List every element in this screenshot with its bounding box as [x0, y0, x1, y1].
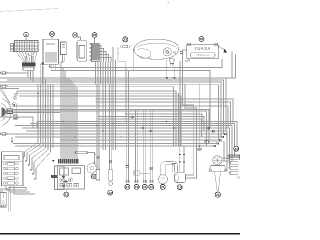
- label 16b: [134, 184, 139, 189]
- label 12: [108, 190, 113, 195]
- svg-text:50: 50: [50, 32, 54, 36]
- svg-text:YB16AL-A2: YB16AL-A2: [196, 53, 210, 57]
- key switch block 50: [41, 39, 58, 70]
- connector symbol under 25: [121, 45, 131, 47]
- label 14: [125, 184, 130, 189]
- mid horizontal bundle: [7, 122, 238, 172]
- turn lamp bottom left: [0, 188, 26, 212]
- svg-text:25: 25: [123, 38, 127, 42]
- connector block 9: [15, 41, 39, 52]
- battery negative lead: [180, 50, 189, 61]
- svg-text:9: 9: [25, 33, 27, 37]
- label 21: [160, 184, 165, 189]
- starter solenoid motor 21: [158, 162, 177, 184]
- svg-text:33: 33: [200, 37, 204, 41]
- svg-text:22: 22: [216, 193, 220, 197]
- label 20: [91, 174, 96, 179]
- label 33: [199, 37, 204, 42]
- junction dots: [37, 93, 175, 138]
- headlight 1: [1, 97, 17, 126]
- connector marks mid right: [130, 116, 152, 132]
- center vertical bundle to ignition strip: [61, 62, 77, 159]
- svg-text:10: 10: [73, 33, 77, 37]
- harness sleeve block: [22, 63, 36, 71]
- label 50: [50, 32, 55, 40]
- fuel tank outline: [134, 39, 179, 59]
- sensor pair 15: [139, 110, 150, 182]
- headlight wires: [0, 86, 209, 146]
- left connector plug A: [0, 72, 28, 74]
- svg-text:16: 16: [135, 185, 139, 189]
- wires left of key switch: [41, 64, 43, 84]
- right corner bundle: [13, 99, 233, 137]
- fusebox tail wires: [0, 186, 35, 194]
- horn 20: [87, 163, 97, 173]
- starter motor 17: [171, 164, 185, 183]
- sensor wires with terminals: [166, 60, 176, 79]
- right connector comb upper: [227, 155, 239, 160]
- ground symbol: [197, 84, 202, 151]
- coil wires verticals: [96, 47, 116, 150]
- left connector plug B: [0, 77, 173, 146]
- fusebox feed arrows: [23, 156, 36, 180]
- long harness horizontals upper: [0, 52, 236, 141]
- svg-text:17: 17: [178, 185, 182, 189]
- comb connector 28: [90, 43, 100, 62]
- pair end terminals: [125, 181, 153, 182]
- alternator 22: [209, 156, 227, 192]
- label 10: [73, 33, 78, 38]
- svg-text:28: 28: [93, 33, 97, 37]
- spark cable right 12: [109, 84, 113, 185]
- svg-text:11: 11: [65, 193, 69, 197]
- sensor pair 14: [126, 68, 130, 183]
- faint top scan artifact: [0, 9, 58, 12]
- ignition switch body: [75, 37, 87, 61]
- connector 9 side pins: [10, 43, 13, 51]
- label 17: [177, 185, 182, 190]
- starter cables: [179, 61, 197, 178]
- tiny page number mark: [1, 200, 5, 205]
- lower center-left corner wires: [0, 117, 37, 143]
- regulator 19: [51, 160, 68, 190]
- svg-text:13: 13: [150, 185, 154, 189]
- fuse box 8: [2, 152, 24, 186]
- label 11: [64, 192, 69, 197]
- sensor pair 16: [134, 110, 139, 182]
- sensor pair 13: [150, 110, 154, 182]
- svg-text:YUASA: YUASA: [194, 46, 211, 51]
- wire fan under connector 9: [16, 52, 37, 63]
- right connector combs lower: [228, 161, 239, 178]
- svg-text:12: 12: [108, 191, 112, 195]
- battery positive lead with arrow: [218, 46, 227, 53]
- wire end terminals mid right: [214, 133, 226, 147]
- svg-text:21: 21: [161, 185, 165, 189]
- left vertical bundle to fusebox: [25, 66, 54, 179]
- label 13: [149, 184, 154, 189]
- label 25: [123, 37, 128, 42]
- svg-text:15: 15: [143, 185, 147, 189]
- fuel cap 18: [163, 48, 175, 56]
- label 9: [24, 32, 29, 40]
- battery 33: [187, 43, 219, 58]
- label 15: [142, 184, 147, 189]
- ignition module 11: [58, 166, 85, 193]
- bottom page border line: [0, 233, 240, 235]
- ignition connector strip: [58, 159, 79, 163]
- fuel level sensor under tank: [170, 59, 175, 66]
- svg-text:14: 14: [126, 185, 130, 189]
- headlight connectors: [7, 109, 17, 119]
- small connector strip upper: [76, 151, 97, 164]
- svg-text:23: 23: [234, 147, 238, 151]
- svg-text:20: 20: [92, 175, 96, 179]
- spark cable left 12a: [96, 84, 100, 180]
- wires from sleeve down to corners: [28, 70, 33, 82]
- wires from comb 28 right side: [99, 46, 111, 63]
- alternator feed wires: [205, 141, 230, 162]
- left connector plug C: [0, 133, 7, 135]
- flasher relay 10: [61, 42, 67, 62]
- label 22: [215, 192, 220, 197]
- staircase wire from 25: [118, 48, 133, 122]
- label 28: [92, 33, 97, 44]
- label 23: [234, 146, 239, 151]
